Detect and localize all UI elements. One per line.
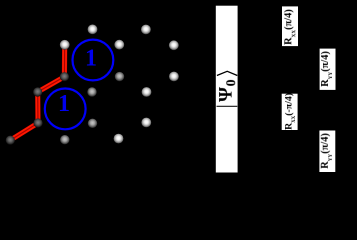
qubit circle 1b bbox=[45, 89, 86, 130]
node site (37.7,92) dark bbox=[33, 87, 42, 96]
node site (64.7,44.8) bright bbox=[60, 40, 70, 50]
svg-text:0: 0 bbox=[224, 79, 239, 86]
node site (119.3,44.7) bright bbox=[114, 40, 124, 50]
node site (119.5,76.6) medium bbox=[115, 72, 124, 81]
node site (92,92) medium bbox=[87, 87, 96, 96]
qubit circle 1a bbox=[73, 40, 114, 81]
node site (173.9,76.5) bright bbox=[169, 72, 179, 82]
gate box Rxx(-pi/4) bbox=[282, 94, 298, 130]
wire bond 3 (red dimer (37.7,92)-(38,123)) bbox=[36, 92, 39, 123]
wire bond 4 (red dimer (38,123)-(10.3,140.2)) bbox=[10, 122, 39, 142]
node site (64.8,139.7) medium bbox=[60, 135, 69, 144]
node site (146.3,122.5) bright bbox=[141, 118, 151, 128]
gate box Ryy(pi/4) lower bbox=[319, 131, 335, 173]
gate box Rxx(pi/4) bbox=[282, 6, 298, 46]
svg-text:1: 1 bbox=[58, 91, 70, 117]
wire bond 1 (red dimer (64.7,44.8)-(64.4,76.7)) bbox=[63, 45, 66, 77]
initial state box |Psi0> bbox=[216, 6, 238, 173]
svg-text:1: 1 bbox=[85, 46, 97, 72]
node site (64.4,76.7) dark bbox=[60, 72, 69, 81]
wire bond 2 (red dimer (64.4,76.7)-(37.7,92)) bbox=[37, 75, 65, 93]
bar | of |Psi0> (rotated) bbox=[217, 105, 238, 107]
node site (118.5,138.6) bright bbox=[114, 134, 124, 144]
node site (92.5,123.3) medium bbox=[88, 119, 97, 128]
node site (173.8,45.3) bright bbox=[169, 40, 179, 50]
svg-text:Ψ: Ψ bbox=[216, 87, 237, 102]
ket bracket of |Psi0> (rotated '>') bbox=[217, 71, 237, 75]
node site (146.5,92) bright bbox=[142, 87, 152, 97]
node site (145.9,29.5) bright bbox=[141, 25, 151, 35]
node site (10.3,140.2) dark bbox=[6, 136, 15, 145]
node site (92.5,29.4) bright bbox=[88, 25, 98, 35]
gate box Ryy(pi/4) upper bbox=[320, 49, 336, 90]
node site (38,123) dark bbox=[33, 118, 42, 127]
